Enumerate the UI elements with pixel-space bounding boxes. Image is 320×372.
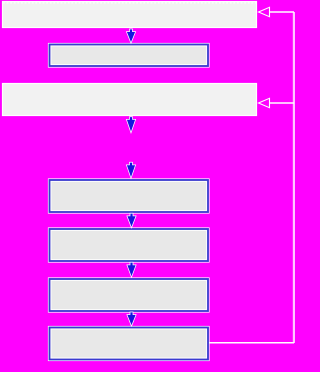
wire: bottom horizontal connector from box 7: [209, 342, 294, 344]
down arrow 3 (above box 4): [126, 162, 135, 178]
box 4: narrow blue-bordered box: [48, 179, 209, 213]
down arrow 1 (box 1 to box 2): [126, 29, 135, 43]
down arrow 6 (box 6 to box 7): [127, 312, 136, 326]
wire: vertical connector on right edge: [293, 12, 296, 343]
box 3: second wide box: [3, 84, 257, 116]
wire: middle horizontal connector to box 3: [269, 102, 294, 104]
box 1: top wide box: [3, 2, 257, 28]
box 7: bottom narrow blue-bordered box: [48, 326, 209, 360]
box 2: narrow blue-bordered box: [48, 43, 209, 67]
down arrow 5 (box 5 to box 6): [127, 262, 136, 277]
box 5: narrow blue-bordered box: [48, 228, 209, 262]
box 6: narrow blue-bordered box: [48, 278, 209, 312]
hollow arrowhead pointing at box 3: [259, 98, 270, 107]
wire: top horizontal connector to box 1: [269, 11, 294, 13]
hollow arrowhead pointing at box 1: [259, 7, 270, 16]
down arrow 4 (box 4 to box 5): [127, 213, 136, 228]
down arrow 2 (below box 3): [126, 117, 135, 133]
